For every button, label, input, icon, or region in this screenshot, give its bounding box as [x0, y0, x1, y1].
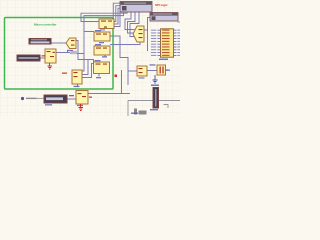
part Y8 LDO: [69, 91, 92, 107]
wire Y5 right pin up to net: [70, 54, 84, 72]
wire Y10 right to Y9: [147, 70, 157, 72]
svg-text:Microcontroller: Microcontroller: [34, 23, 57, 27]
module M1: [29, 39, 51, 45]
part Y7: [42, 49, 57, 63]
part Y6: [66, 38, 76, 51]
wire LDO left: [67, 98, 76, 100]
wire bottom rail: [88, 93, 130, 95]
wire D2 display left pin to Y1 right: [114, 11, 120, 27]
wire B display pin to Y2 left: [84, 12, 124, 32]
title block lines: [128, 101, 180, 117]
part Y10: [137, 66, 147, 79]
wire Y9 right stub: [165, 69, 168, 71]
part Y2: [94, 30, 110, 43]
junction red marker: [115, 75, 118, 78]
wire Y5 right pin up: [82, 60, 88, 75]
wire Y6 right pins down to Y4 top: [76, 41, 94, 63]
power symbol blue below Y9: [153, 75, 158, 83]
pin header J1: [151, 22, 180, 61]
wire G display pin to Y11: [130, 12, 139, 37]
wire E display pin to Y11: [125, 12, 135, 30]
wire D display left pin to Y1 right: [114, 8, 120, 24]
wire A display pin to Y1 left: [81, 12, 127, 22]
wire Y5 right pin to Y4 left: [82, 64, 94, 78]
wire to Y10 left: [128, 70, 137, 72]
wire X1 to Y7: [40, 57, 45, 59]
wire F display pin to Y11: [128, 12, 136, 33]
wire C display left pin to Y1 right: [114, 6, 120, 22]
wire Y5 bottom stub: [77, 84, 79, 87]
wire Y11 right pin: [144, 29, 148, 31]
module MOD2 (SPI): [150, 13, 178, 22]
wire Y6 bottom stub: [67, 50, 69, 53]
ground symbol red below Y8: [79, 104, 84, 111]
wire bundle from display to MCU: [76, 3, 139, 62]
module M2: [44, 95, 67, 106]
wire Y4 bottom stub: [98, 74, 100, 77]
display module MOD1: [120, 2, 152, 13]
crystal module X1: [17, 55, 40, 61]
part Y9 battery: [150, 64, 171, 75]
note text: [26, 98, 37, 100]
note dot: [21, 97, 24, 100]
wire staircase to bottom rail: [121, 70, 123, 94]
svg-text:SPI logic: SPI logic: [155, 3, 168, 7]
wire Y2 right to vertical: [110, 36, 128, 85]
wire bundle vertical continuation: [83, 32, 85, 54]
ground symbol red below Y7: [48, 63, 53, 69]
wire Y7 right to net label: [56, 52, 70, 54]
title block logo: [134, 109, 147, 115]
wire Y11 bottom left: [120, 42, 140, 45]
wire M1 to Y6: [51, 42, 66, 44]
part Y11: [133, 26, 144, 42]
part Y4: [94, 60, 110, 78]
note wire to M2: [26, 98, 44, 100]
net label blob: [71, 51, 78, 54]
wire Y3 right horizontal: [110, 44, 120, 46]
sheet region Microcontroller (green rectangle): [5, 18, 114, 90]
part Y3: [94, 44, 110, 58]
part Y5: [62, 70, 82, 87]
part Y1: [99, 19, 114, 31]
wires right of Y2/Y3: [40, 18, 168, 100]
wire D2 down to header: [148, 18, 151, 52]
connector V1 vertical: [150, 88, 159, 111]
wire C0 display left pin to Y1 top: [113, 3, 120, 19]
